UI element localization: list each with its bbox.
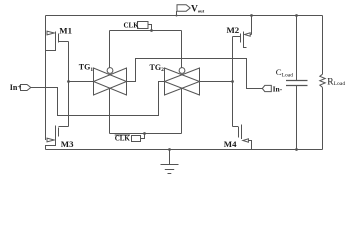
transmission gate TG1 [94, 68, 127, 95]
wire CLK net (top control) [148, 25, 152, 31]
transmission gate TG2 [165, 68, 200, 95]
svg-text:M1: M1 [59, 25, 72, 35]
svg-text:M2: M2 [227, 25, 240, 35]
resistor RLoad zigzag [320, 74, 325, 87]
resistor RLoad leads [322, 16, 324, 75]
CLKbar box [132, 136, 141, 142]
wire top rail (Vout net) [46, 15, 323, 17]
wire TG1 left terminal [69, 81, 94, 83]
CLoad bottom junction [295, 148, 298, 151]
wire bottom rail (ground net) [46, 149, 323, 151]
svg-text:RLoad: RLoad [327, 77, 345, 87]
transistor M1 [46, 31, 69, 50]
svg-text:Vout: Vout [191, 5, 205, 15]
CLK box [138, 22, 149, 29]
svg-text:In-: In- [273, 85, 283, 94]
svg-text:In+: In+ [10, 83, 22, 92]
svg-text:TG2: TG2 [150, 63, 165, 73]
wire left gate line [45, 16, 47, 141]
wire node A vertical (M1 drain - M3 drain) [68, 42, 70, 127]
M2 gate rail junction [250, 14, 253, 17]
capacitor CLoad leads [296, 16, 298, 81]
port In- [262, 85, 271, 91]
svg-text:TG1: TG1 [79, 63, 94, 73]
node B junction [231, 80, 234, 83]
capacitor CLoad plates [286, 80, 308, 82]
transistor M4 [233, 125, 252, 150]
wire In+ net [31, 82, 165, 116]
overbar of CLKbar [115, 134, 130, 136]
wire node B vertical (M2 drain - M4 drain) [232, 37, 234, 127]
svg-text:CLK: CLK [124, 22, 140, 30]
wire TG2 right terminal [200, 81, 233, 83]
CLoad top junction [295, 14, 298, 17]
transistor M2 [233, 16, 252, 48]
ground junction [168, 148, 171, 151]
svg-text:CLoad: CLoad [276, 67, 294, 78]
svg-text:CLK: CLK [115, 135, 131, 143]
CLK junction [150, 29, 153, 32]
Vout stub junction [176, 15, 178, 17]
CLKbar junction [143, 132, 146, 135]
svg-text:M4: M4 [224, 139, 237, 149]
transistor M3 [46, 126, 69, 150]
wire In- / TG1 right / M2 source net [127, 59, 263, 89]
node A junction [67, 80, 70, 83]
node Vout port stub [176, 11, 178, 16]
port In+ [21, 85, 31, 91]
wire CLKbar net (bottom control) [109, 88, 111, 134]
node Vout port symbol [177, 5, 190, 12]
ground [161, 150, 179, 174]
svg-text:M3: M3 [61, 139, 74, 149]
